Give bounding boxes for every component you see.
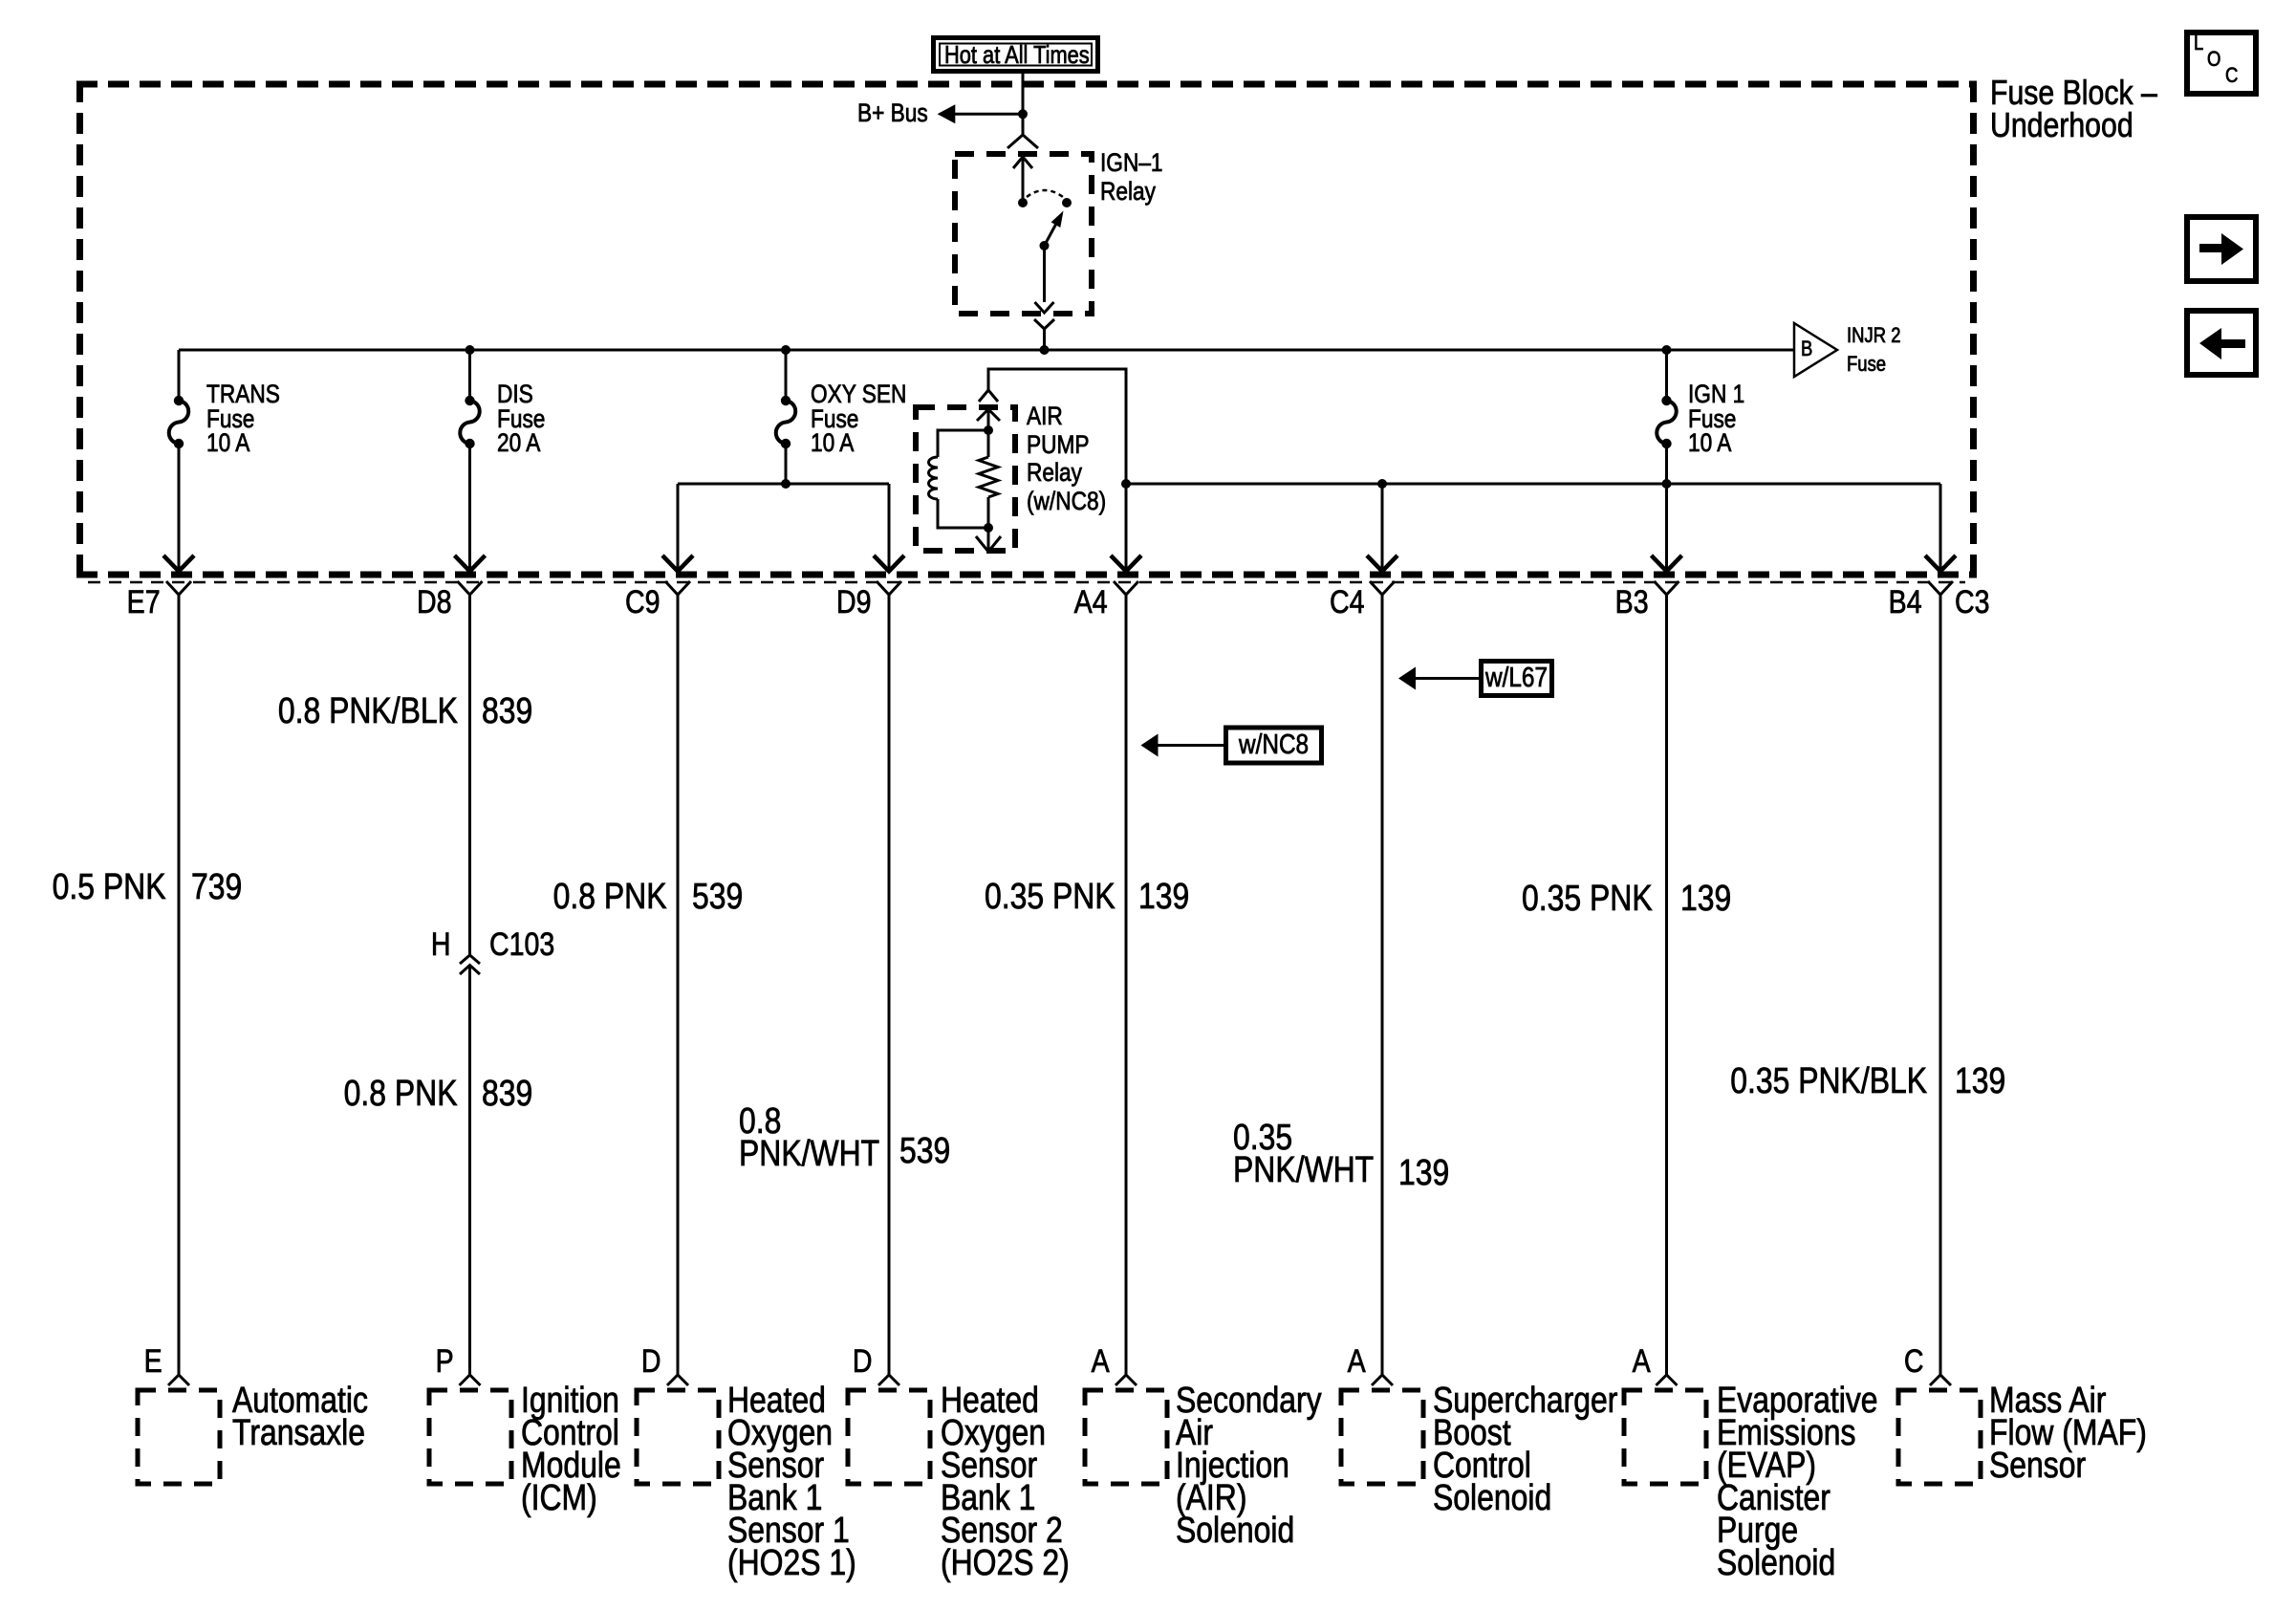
C103 female connector half <box>460 955 480 964</box>
MAF Sensor box <box>1898 1390 1981 1484</box>
relay dashed actuation arc <box>1027 190 1063 197</box>
OXY SEN fuse 10A symbol <box>781 396 791 405</box>
label component pin A <box>1632 1345 1650 1378</box>
label AIR PUMP Relay (w/NC8) <box>1027 403 1106 515</box>
label pin E7 <box>127 586 161 619</box>
label Secondary Air Injection (AIR) Solenoid <box>1176 1384 1322 1547</box>
w/NC8 box <box>1226 728 1322 763</box>
wire TRANS fuse to E7 <box>178 444 181 572</box>
female connector E7 <box>166 581 191 595</box>
relay resistor top lead <box>987 430 990 457</box>
wire B4 down to component <box>1939 595 1942 1375</box>
Supercharger Boost Control Solenoid box <box>1341 1390 1423 1484</box>
label circuit 839 (upper) <box>482 693 532 729</box>
label pin B3 <box>1615 586 1649 619</box>
junction dot rail at A4 <box>1121 479 1131 489</box>
label pin C9 <box>624 586 660 619</box>
label pin A4 <box>1074 586 1108 619</box>
wire E7 down to component <box>178 595 181 1375</box>
relay fixed contact dot (output side) <box>1062 198 1072 207</box>
arrow at D9 exit <box>874 555 904 572</box>
label Automatic Transaxle <box>232 1384 368 1449</box>
label Fuse Block - Underhood <box>1990 76 2157 142</box>
relay switch pivot dot <box>1040 241 1050 250</box>
wire junction to relay input connector <box>1022 114 1025 135</box>
label LOC letter L <box>2194 33 2203 54</box>
label Ignition Control Module (ICM) <box>521 1384 621 1514</box>
wire from Hot at All Times box down through border <box>1022 74 1025 114</box>
label pin B of INJR 2 fuse <box>1801 338 1812 359</box>
male connector at component (C4 wire) <box>1372 1375 1393 1385</box>
wire D8 upper segment to C103 <box>468 595 471 955</box>
TRANS fuse 10A symbol <box>174 396 184 405</box>
label HO2S 1 <box>727 1384 856 1579</box>
relay coil left branch bottom wire <box>938 499 988 528</box>
label Supercharger Boost Control Solenoid <box>1433 1384 1617 1514</box>
male connector at component (C9 wire) <box>667 1375 688 1385</box>
label 0.8 PNK/WHT <box>739 1105 879 1170</box>
INJR 2 fuse triangle with pin B <box>1794 323 1837 377</box>
label IGN 1 Fuse 10 A <box>1688 382 1744 456</box>
wire relay output to bus <box>1043 329 1046 350</box>
label 0.8 PNK/BLK <box>277 693 457 729</box>
relay switch arm <box>1045 222 1058 246</box>
fuse block - underhood dashed border (left) <box>76 81 83 577</box>
label LOC letter O <box>2207 49 2220 70</box>
Hot at All Times box (inner) <box>940 44 1092 66</box>
label w/NC8 <box>1239 731 1309 759</box>
label w/L67 <box>1485 664 1548 692</box>
label 0.5 PNK <box>53 869 166 905</box>
label 0.35 PNK/WHT <box>1233 1121 1374 1186</box>
junction dot rail at B3 <box>1662 479 1672 489</box>
connector dashed line below fuse block <box>88 581 1965 584</box>
rail wire A4 to B4 <box>1126 483 1940 486</box>
label circuit 139 (C4) <box>1398 1155 1449 1191</box>
fuse block - underhood dashed border (top) <box>76 81 1977 88</box>
label pin C3 <box>1955 586 1990 619</box>
label OXY SEN Fuse 10 A <box>811 382 906 456</box>
wire rail corner down to B4 <box>1939 484 1942 572</box>
wire relay bottom node to output arrow <box>987 528 990 551</box>
arrow at C4 exit <box>1367 555 1397 572</box>
wire C9 down to component <box>677 595 680 1375</box>
wire A4 down to component <box>1125 595 1128 1375</box>
label HO2S 2 <box>941 1384 1070 1579</box>
wire A4 riser to relay feed <box>988 369 1126 572</box>
male connector into AIR PUMP relay <box>979 390 998 402</box>
Ignition Control Module box <box>429 1390 511 1484</box>
label circuit 739 <box>191 869 242 905</box>
label component pin C <box>1904 1345 1924 1378</box>
arrow at D8 exit <box>455 555 486 572</box>
wire C4 down to component <box>1381 595 1384 1375</box>
female connector below IGN-1 relay <box>1034 319 1054 329</box>
label circuit 139 (B4) <box>1955 1063 2005 1099</box>
relay resistor bottom lead <box>987 497 990 528</box>
wire D9 down to component <box>888 595 891 1375</box>
label 0.35 PNK/BLK <box>1730 1063 1927 1099</box>
Automatic Transaxle box <box>138 1390 220 1484</box>
junction dot rail at C4 <box>1377 479 1387 489</box>
label component pin D <box>853 1345 873 1378</box>
junction dot bus at DIS fuse <box>466 345 475 355</box>
label component pin E <box>144 1345 162 1378</box>
male connector at component (E7 wire) <box>168 1375 189 1385</box>
wire switch pivot to relay output <box>1043 246 1046 302</box>
C103 male connector half <box>460 966 480 975</box>
main bus wire <box>179 349 1794 352</box>
AIR PUMP relay input arrow <box>977 409 1000 421</box>
w/L67 arrowhead <box>1398 667 1416 690</box>
junction dot bus at IGN-1 relay output <box>1040 345 1050 355</box>
label circuit 839 (lower) <box>482 1076 532 1112</box>
label component pin A <box>1092 1345 1110 1378</box>
junction dot B+ bus tap <box>1018 109 1028 119</box>
wire B3 down to component <box>1665 595 1668 1375</box>
female connector D8 <box>458 581 483 595</box>
female connector B3 <box>1655 581 1679 595</box>
fuse block - underhood dashed border (right) <box>1970 81 1977 577</box>
junction dot bus at OXY SEN fuse <box>781 345 791 355</box>
HO2S 1 box <box>637 1390 719 1484</box>
EVAP Canister Purge Solenoid box <box>1624 1390 1706 1484</box>
label 0.8 PNK (lower) <box>344 1076 458 1112</box>
male connector at component (A4 wire) <box>1116 1375 1137 1385</box>
wire rail to C4 <box>1381 484 1384 572</box>
wire OXY SEN fuse to rail <box>785 444 788 484</box>
wire relay input to contact <box>1022 157 1025 203</box>
female connector D9 <box>877 581 901 595</box>
IGN 1 fuse 10A symbol <box>1661 396 1671 405</box>
label pin D9 <box>835 586 871 619</box>
label Mass Air Flow (MAF) Sensor <box>1989 1384 2147 1482</box>
w/L67 box <box>1482 662 1552 696</box>
label component pin A <box>1348 1345 1366 1378</box>
fuse block - underhood dashed border (bottom) <box>76 572 1977 578</box>
female connector B4 <box>1928 581 1953 595</box>
label IGN-1 Relay <box>1100 149 1163 206</box>
female connector C9 <box>665 581 690 595</box>
AIR PUMP relay output arrow <box>976 536 1001 552</box>
Hot at All Times box (outer) <box>934 38 1098 72</box>
label 0.35 PNK (A4) <box>985 879 1116 915</box>
label circuit 539 (C9) <box>692 879 743 915</box>
wire IGN 1 fuse to B3 <box>1665 444 1668 572</box>
page-arrow box (left) <box>2187 311 2256 375</box>
page-arrow box (right) <box>2187 217 2256 281</box>
junction dot bus at IGN 1 fuse <box>1662 345 1672 355</box>
wire C103 to ICM <box>468 966 471 1376</box>
label pin B4 <box>1889 586 1922 619</box>
rail wire C9-D9 <box>678 483 889 486</box>
page-arrow right symbol <box>2199 233 2243 265</box>
wire DIS fuse to D8 <box>468 444 471 572</box>
arrow at B3 exit <box>1652 555 1682 572</box>
junction dot OXY SEN rail <box>781 479 791 489</box>
label circuit 139 (A4) <box>1138 879 1189 915</box>
label B+ Bus <box>857 100 928 126</box>
w/NC8 arrowhead <box>1141 734 1159 757</box>
female connector C4 <box>1370 581 1395 595</box>
male connector into IGN-1 relay <box>1007 135 1038 148</box>
wire rail to C9 <box>677 484 680 572</box>
wire bus to DIS fuse <box>468 350 471 401</box>
wire rail to D9 <box>888 484 891 572</box>
relay coil left branch wire <box>938 430 988 457</box>
relay resistor zigzag <box>979 457 998 497</box>
wire relay input to coil node <box>987 409 990 430</box>
label LOC letter C <box>2225 65 2238 86</box>
male connector at component (D9 wire) <box>878 1375 899 1385</box>
label DIS Fuse 20 A <box>497 382 545 456</box>
HO2S 2 box <box>848 1390 930 1484</box>
female connector A4 <box>1114 581 1138 595</box>
relay bottom node dot <box>984 523 993 533</box>
relay output arrow at box bottom <box>1035 302 1054 313</box>
label C103 <box>489 928 554 961</box>
arrow at E7 exit <box>163 555 194 572</box>
male connector at component (D8 wire) <box>460 1375 481 1385</box>
relay switch arm arrowhead <box>1051 211 1064 229</box>
LOC reference box <box>2187 33 2256 94</box>
wire bus to IGN 1 fuse <box>1665 350 1668 401</box>
DIS fuse 20A symbol <box>465 396 474 405</box>
relay coil top node dot <box>984 425 993 435</box>
label pin C4 <box>1329 586 1364 619</box>
label component pin D <box>641 1345 661 1378</box>
w/NC8 arrow line <box>1156 744 1224 747</box>
label EVAP Canister Purge Solenoid <box>1717 1384 1878 1579</box>
male connector at component (B3 wire) <box>1657 1375 1678 1385</box>
IGN-1 relay dashed box <box>955 154 1092 314</box>
page-arrow left symbol <box>2199 328 2245 359</box>
label TRANS Fuse 10 A <box>206 382 280 456</box>
relay coil winding <box>929 457 939 499</box>
wire bus corner down to TRANS fuse <box>178 350 181 401</box>
label circuit 139 (B3) <box>1680 881 1731 917</box>
male connector at component (B4 wire) <box>1930 1375 1951 1385</box>
label INJR 2 Fuse <box>1847 321 1900 379</box>
label H connector pin <box>431 928 451 961</box>
B+ Bus arrow line <box>955 113 1023 116</box>
label Hot at All Times <box>944 42 1090 67</box>
label circuit 539 (D9) <box>899 1133 950 1169</box>
arrow at B4 exit <box>1925 555 1956 572</box>
label 0.35 PNK (B3) <box>1522 881 1653 917</box>
arrow at C9 exit <box>662 555 693 572</box>
B+ Bus arrowhead <box>938 104 956 123</box>
label pin D8 <box>417 586 452 619</box>
wire bus to OXY SEN fuse <box>785 350 788 401</box>
arrow at A4 exit <box>1111 555 1141 572</box>
w/L67 arrow line <box>1414 677 1479 680</box>
AIR PUMP relay dashed box <box>916 407 1015 551</box>
label 0.8 PNK (C9) <box>553 879 667 915</box>
label component pin P <box>435 1345 453 1378</box>
relay fixed contact dot (input) <box>1018 198 1028 207</box>
IGN-1 relay pin 30 input arrow <box>1013 157 1032 168</box>
AIR Solenoid box <box>1085 1390 1167 1484</box>
